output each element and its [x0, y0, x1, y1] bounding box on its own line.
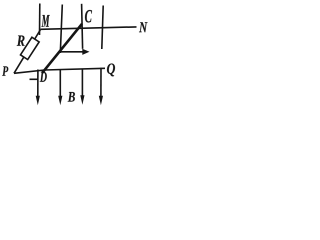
- field line B4 top segment: [102, 6, 103, 50]
- stub tick on field line B1: [30, 78, 39, 80]
- label Q: [107, 63, 115, 76]
- label M: [41, 15, 49, 27]
- rail PQ: [14, 68, 105, 73]
- field line B1 top segment: [39, 4, 41, 36]
- velocity arrow: [60, 49, 90, 55]
- field line B3 top segment: [82, 4, 83, 49]
- rail MN: [41, 27, 137, 29]
- label P: [2, 66, 8, 75]
- label N: [139, 22, 147, 32]
- resistor R1: [20, 37, 39, 59]
- field line B2 bottom segment: [58, 70, 62, 106]
- label C: [85, 10, 92, 22]
- rod CD: [42, 24, 82, 73]
- field line B4 bottom segment: [99, 68, 103, 106]
- field line B1 bottom segment: [36, 70, 40, 106]
- wire P to M: [14, 30, 41, 74]
- label B: [68, 92, 75, 102]
- label D: [40, 72, 47, 82]
- label R: [17, 36, 25, 46]
- field line B3 bottom segment: [80, 69, 84, 105]
- field line B2 top segment: [60, 5, 62, 54]
